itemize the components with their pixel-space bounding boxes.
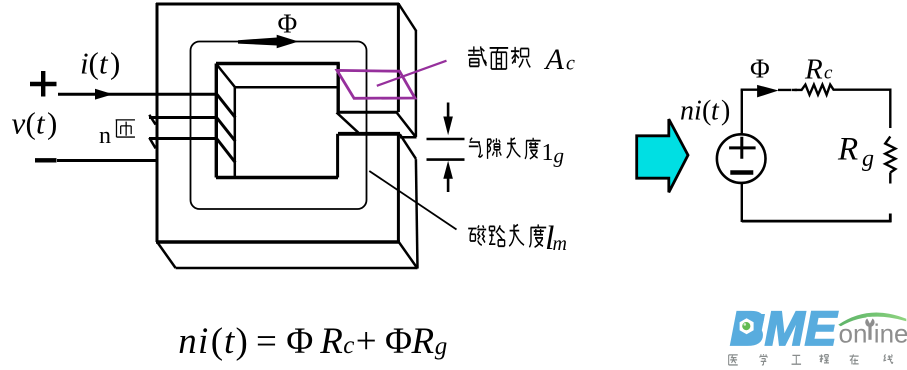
svg-text:c: c [343, 332, 354, 359]
wire: right vertical bottom stub [889, 214, 892, 223]
svg-text:i: i [80, 46, 89, 81]
gap dimension extension line bottom [427, 158, 465, 161]
svg-text:Φ: Φ [278, 9, 298, 39]
svg-text:Φ: Φ [750, 54, 770, 84]
source minus sign [730, 170, 753, 175]
svg-text:t: t [711, 96, 720, 127]
winding wire 3 [149, 137, 217, 140]
air gap bottom front edge [338, 132, 400, 136]
svg-text:A: A [544, 43, 565, 76]
svg-text:Φ: Φ [385, 321, 412, 362]
winding window diagonal 1 [217, 94, 235, 117]
winding hook diagonal 1 [149, 115, 155, 125]
purple cross-section parallelogram [337, 70, 415, 98]
core outer front face right edge lower [397, 134, 400, 243]
svg-text:R: R [319, 321, 343, 362]
resistor R_c zigzag [792, 85, 890, 95]
winding bottom lead [57, 159, 159, 162]
window top-left slant edge [216, 64, 235, 87]
svg-text:n: n [99, 123, 111, 149]
wire: bottom horizontal [742, 220, 892, 223]
svg-text:m: m [553, 233, 567, 255]
svg-text:t: t [224, 321, 236, 362]
core outer front face bottom edge [156, 240, 400, 243]
air gap top front edge [337, 111, 398, 114]
svg-text:R: R [837, 132, 858, 168]
back right edge above gap [415, 30, 418, 137]
svg-text:g: g [554, 144, 565, 168]
green swoosh [838, 313, 906, 327]
svg-text:(: ( [89, 46, 99, 81]
resistor R_g zigzag [885, 137, 895, 173]
svg-text:(: ( [211, 321, 223, 362]
svg-text:i: i [198, 321, 208, 362]
core window top edge [216, 62, 340, 65]
svg-text:Φ: Φ [286, 321, 313, 362]
wire: right vertical top [889, 89, 891, 129]
core outer front face left edge [156, 3, 159, 242]
winding window diagonal 2 [217, 118, 235, 141]
source plus sign [729, 137, 756, 159]
svg-text:ine: ine [874, 318, 907, 348]
hexagon nut on B [740, 318, 754, 334]
green ball in nut [742, 322, 750, 330]
core window right edge lower [336, 134, 339, 178]
svg-text:(: ( [702, 96, 711, 127]
core window bottom edge [216, 176, 338, 179]
purple pointer line [377, 61, 447, 86]
current arrow head on wire 1 [95, 89, 113, 100]
core outer front face top edge [156, 3, 399, 6]
svg-text:): ) [47, 106, 57, 141]
svg-text:t: t [36, 106, 46, 141]
svg-text:R: R [411, 321, 435, 362]
air gap right-bottom slant edge [400, 134, 416, 159]
svg-text:R: R [804, 53, 823, 85]
svg-text:): ) [721, 96, 730, 127]
svg-text:g: g [862, 146, 874, 172]
wire: left vertical bottom [741, 183, 743, 222]
core outer front face right edge upper [397, 3, 400, 112]
label 截面积 [468, 46, 486, 66]
flux loop (rounded) [191, 42, 367, 210]
svg-text:=: = [256, 321, 277, 362]
svg-text:1: 1 [542, 140, 554, 166]
back edge: bottom-right slant [399, 242, 418, 269]
back edge: bottom-left slant [158, 243, 176, 269]
source circle U1 [717, 134, 766, 183]
back window top edge [235, 86, 338, 89]
svg-text:n: n [178, 321, 197, 362]
B counter fill [738, 314, 766, 342]
back window left edge [234, 87, 237, 177]
gap dimension extension line top [427, 138, 465, 141]
svg-text:+: + [356, 321, 377, 362]
svg-text:(: ( [26, 106, 36, 141]
back right edge below gap [416, 159, 418, 268]
wrench (the l of online) [868, 326, 871, 340]
svg-text:c: c [566, 52, 575, 74]
flux arrow head on circuit top wire [757, 85, 778, 98]
core window left edge [215, 64, 218, 178]
logo Chinese row 医学工程在线 [729, 354, 893, 365]
minus terminal [35, 158, 57, 162]
core window right edge upper [337, 64, 340, 113]
back bottom edge [176, 267, 418, 270]
svg-text:c: c [824, 63, 833, 84]
svg-text:v: v [12, 106, 26, 141]
air gap right-top slant edge [397, 113, 416, 137]
svg-text:): ) [110, 46, 120, 81]
winding wire 2 [149, 116, 217, 119]
svg-text:ni: ni [680, 96, 702, 127]
label 匝 [116, 120, 135, 137]
wire: top horizontal segments [741, 88, 758, 90]
label 气隙长度 [469, 138, 483, 157]
pointer line to magnetic path length label [369, 171, 456, 230]
winding wire 1 (i(t) lead) [58, 93, 217, 96]
gap dimension up arrow [447, 178, 450, 192]
svg-text:): ) [236, 321, 248, 362]
winding window diagonal 3 [217, 139, 235, 163]
flux arrow head [277, 35, 299, 48]
winding hook diagonal 2 [149, 138, 155, 149]
air gap left slant edge [337, 112, 359, 132]
svg-text:g: g [435, 333, 448, 360]
plus terminal [30, 71, 57, 97]
svg-text:t: t [99, 46, 109, 81]
gap dimension down arrow [447, 103, 450, 120]
flux arrow shaft (tapered) [238, 38, 277, 46]
svg-text:on: on [839, 318, 868, 348]
wire: right dash below R_g [889, 173, 891, 184]
air gap back top edge (short) [400, 136, 417, 139]
wire: left vertical top [741, 90, 743, 135]
back edge: top-right slant [398, 4, 416, 32]
label 磁路长度 [468, 225, 486, 245]
